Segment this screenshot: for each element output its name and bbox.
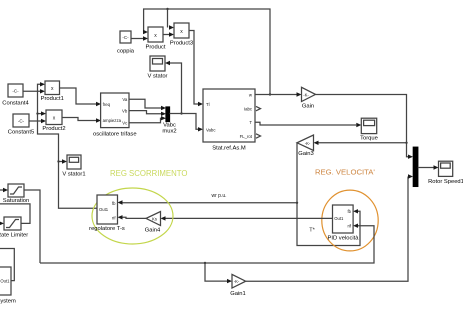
svg-text:Rotor Speed1: Rotor Speed1 [428,179,463,185]
subsystem PID velocita [328,205,360,242]
svg-text:Gain4: Gain4 [145,228,161,234]
wire Va to mux2 [129,99,166,110]
wire arrow into Product3 in1 [169,25,174,29]
svg-text:-C-: -C- [18,118,25,123]
svg-text:Out1: Out1 [0,278,10,283]
svg-text:Vabc: Vabc [163,122,176,128]
svg-text:oscillatore trifase: oscillatore trifase [93,131,137,137]
svg-text:Va: Va [122,97,128,102]
svg-text:Constant5: Constant5 [8,130,34,136]
wire regolatore output feedback net [38,82,98,208]
svg-text:Gain: Gain [302,104,314,110]
wire Gain4 to regolatore rif [118,215,147,219]
wire Constant5 to Product2 in2 [29,119,46,123]
node junction Gain3 tap [405,142,407,144]
gain Gain4 [145,212,161,234]
gain Gain [302,87,316,109]
wire bottom rail to PID rif [40,224,374,264]
subsystem bottom left cut [0,267,16,305]
wire Gain1 to mux1 in2 [246,174,413,281]
wire w to Gain [255,92,302,96]
wire Vb to mux2 [129,111,166,116]
wire Product2 to ampiezza [62,118,101,123]
wire into Saturation [0,188,8,192]
wire coppia to Product in2 [131,36,148,40]
svg-text:Gain3: Gain3 [298,151,313,157]
wire Vc to mux2 [129,116,166,123]
svg-text:-K-: -K- [303,92,309,97]
svg-text:Ks: Ks [152,217,157,222]
svg-text:Rate Limiter: Rate Limiter [0,232,28,238]
wire w feedback top rail [144,9,270,95]
constant Constant4 [2,84,29,107]
node junction w line [269,93,271,95]
svg-text:regolatore T-s: regolatore T-s [89,226,125,232]
svg-text:Out1: Out1 [334,216,344,221]
wire Gain to mux1 in1 and Gain3 branch [314,95,414,159]
svg-text:Tl: Tl [206,102,210,107]
svg-text:FL_rot: FL_rot [240,134,253,139]
mux mux1 [413,147,418,186]
product Product1 [41,81,64,102]
svg-text:Torque: Torque [360,135,378,141]
svg-text:-C-: -C- [122,35,129,40]
node junction V stator1 tap [57,160,59,162]
svg-text:coppia: coppia [117,49,135,55]
node junction top rail to Product3 [166,8,168,10]
svg-text:Constant4: Constant4 [2,101,29,107]
node junction Product2 in1 [36,112,38,114]
product Product3 [170,23,193,47]
svg-text:freq: freq [103,102,111,107]
product Product [146,27,166,51]
rate limiter Rate Limiter [0,217,28,238]
svg-text:Stat.ref.As.M: Stat.ref.As.M [212,146,246,152]
wire mux1 to Rotor Speed1 [418,165,439,169]
scope V stator1 [62,155,85,178]
svg-text:PID velocità: PID velocità [328,236,360,242]
wire bottom rail tap to Gain1 [205,263,232,283]
scope Torque [360,118,378,141]
wire subsystem Out1 loop [0,249,14,281]
svg-text:Product1: Product1 [41,96,64,102]
wire PID Out1 to Gain4 [161,216,333,220]
subsystem Stat.ref.As.M [203,89,255,152]
svg-text:V stator1: V stator1 [62,172,85,178]
gain Gain1 [230,274,245,297]
saturation Saturation [3,184,29,204]
subsystem oscillatore trifase [93,93,137,137]
svg-text:wr p.u.: wr p.u. [211,193,226,199]
svg-text:Product3: Product3 [170,41,193,47]
svg-text:V stator: V stator [148,74,168,80]
svg-text:REG. VELOCITA': REG. VELOCITA' [315,167,375,176]
svg-text:T*: T* [309,228,315,234]
node junction wr p.u. tap [296,202,298,204]
wire into Rate Limiter [0,221,4,225]
svg-text:Vc: Vc [122,121,128,126]
svg-text:Gain1: Gain1 [230,291,245,297]
svg-text:-C-: -C- [12,88,19,93]
scope V stator [148,56,168,80]
svg-text:Iabc: Iabc [244,107,253,112]
wire Saturation down to bottom rail [24,190,40,263]
svg-text:mux2: mux2 [162,129,176,135]
svg-text:T: T [249,120,252,125]
svg-text:subsystem: subsystem [0,299,16,305]
node Iabc open port [256,106,261,110]
node FL_rot open port [256,134,261,138]
mux mux2 [162,107,176,135]
svg-text:-K-: -K- [234,279,240,284]
wire Product to Product3 in2 [163,32,174,36]
constant Constant5 [8,114,34,136]
annotation ellipse scorrimento [92,188,173,244]
annotation ellipse velocita [322,190,378,251]
svg-text:Product2: Product2 [42,126,65,132]
svg-text:REG SCORRIMENTO: REG SCORRIMENTO [110,169,187,178]
wire Product3 to Tl input [189,31,203,107]
wire Gain3 output down to PID fb and wr p.u. branch [118,143,361,246]
wire Constant4 to Product1 in2 [23,89,45,93]
svg-text:Product: Product [146,45,166,51]
wire Vabc tap to V stator scope [165,61,182,114]
scope Rotor Speed1 [428,161,463,185]
svg-text:Vabc: Vabc [206,127,216,132]
gain Gain3 [297,135,314,157]
wire mux2 to Vabc input [170,114,204,132]
wire arrow into Product in1 [143,30,148,34]
subsystem regolatore T-s [89,195,125,232]
node junction Vabc tap [180,112,182,114]
wire T to Torque [255,122,361,127]
svg-text:Saturation: Saturation [3,198,29,204]
product Product2 [42,110,65,132]
svg-text:Vb: Vb [122,108,128,113]
wire Rate Limiter loop out [0,204,30,224]
svg-text:ampiezza: ampiezza [103,118,122,123]
node junction bottom rail Gain1 tap [204,262,206,264]
svg-text:-K-: -K- [305,141,311,146]
wire Product1 to freq [60,88,102,106]
constant coppia [117,31,135,55]
svg-text:Out1: Out1 [99,207,109,212]
